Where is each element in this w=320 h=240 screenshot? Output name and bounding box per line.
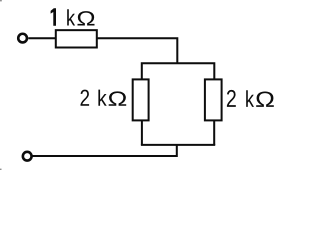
label R3 value: k bbox=[246, 90, 254, 107]
label R3 value: digit 2 bbox=[227, 90, 236, 107]
label R2 value: k bbox=[98, 90, 106, 106]
wire: R1 to top junction bbox=[97, 38, 178, 63]
wire: R3 bottom stub bbox=[213, 120, 215, 144]
label R1 value: digit 1 bbox=[51, 8, 56, 26]
resistor R2 body bbox=[133, 79, 149, 120]
top input terminal bbox=[18, 34, 27, 43]
label R2 value: Omega bbox=[109, 91, 127, 105]
node: top bus joining R2 and R3 bbox=[142, 63, 215, 79]
wire: R2 bottom stub bbox=[141, 120, 143, 144]
wire: top terminal to R1 bbox=[28, 37, 56, 39]
wire: bottom bus to bottom terminal bbox=[32, 145, 176, 156]
scan artifact top-left corner bbox=[0, 0, 2, 1]
node: bottom bus joining R2 and R3 bbox=[141, 144, 215, 146]
resistor R3 body bbox=[205, 79, 222, 120]
label R1 value: k bbox=[67, 9, 75, 25]
label R1 value: Omega bbox=[77, 11, 94, 25]
bottom input terminal bbox=[23, 152, 32, 161]
label R2 value: digit 2 bbox=[81, 90, 90, 106]
scan artifact bottom-left corner bbox=[0, 169, 2, 170]
label R3 value: Omega bbox=[256, 92, 274, 107]
resistor R1 body bbox=[56, 30, 97, 47]
